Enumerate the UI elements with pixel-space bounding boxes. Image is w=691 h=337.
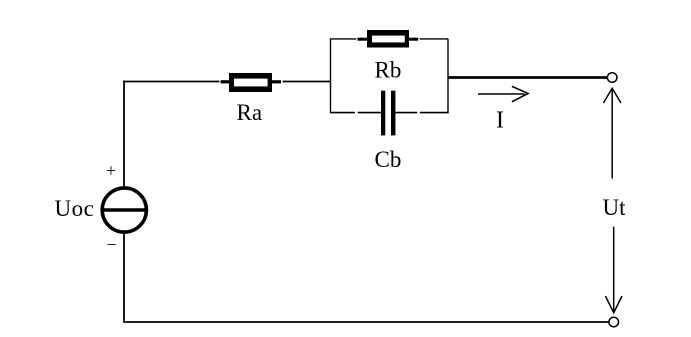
svg-text:I: I (496, 108, 504, 134)
svg-text:Uoc: Uoc (55, 196, 95, 221)
wire: parallel block bottom edge far-right segment (420, 112, 449, 114)
wire: left vertical (source bottom down to bottom wire) (123, 234, 125, 323)
resistor Ra (229, 73, 272, 92)
terminal: bottom output node (609, 317, 619, 327)
wire: Ra to parallel block (283, 81, 331, 83)
wire: thick lead stub left of Ra (221, 80, 229, 83)
terminal: top output node (607, 73, 617, 83)
wire: parallel block top edge right segment (420, 38, 448, 40)
label I (496, 108, 504, 134)
wire: Cb right lead (395, 112, 417, 114)
label Rb (375, 58, 402, 83)
voltage source U_oc (101, 188, 147, 232)
label Cb (375, 147, 402, 172)
wire: parallel block top edge left segment (330, 38, 356, 40)
svg-text:+: + (106, 161, 116, 181)
polarity plus sign (106, 161, 116, 181)
capacitor Cb (381, 91, 395, 136)
wire: thick lead stub left of Rb (358, 38, 368, 41)
label Ut (603, 195, 627, 220)
wire: parallel block left edge (330, 39, 332, 113)
wire: left vertical (top wire corner down to source top) (123, 81, 125, 187)
svg-text:Ra: Ra (237, 100, 263, 125)
label Uoc (55, 196, 95, 221)
resistor Rb (367, 30, 409, 48)
wire: thick lead stub right of Ra (272, 80, 282, 83)
wire: parallel block bottom edge far-left segment (330, 112, 355, 114)
Ut upper arrow (pointing up at top terminal) (603, 88, 621, 178)
svg-text:Rb: Rb (375, 58, 402, 83)
Ut lower arrow (pointing down at bottom terminal) (605, 227, 622, 313)
wire: bottom horizontal (123, 321, 609, 323)
svg-text:Cb: Cb (375, 147, 402, 172)
label Ra (237, 100, 263, 125)
wire: output thick wire to top terminal (448, 76, 607, 79)
wire: Cb left lead (358, 112, 381, 114)
polarity minus sign (106, 235, 116, 255)
svg-text:Ut: Ut (603, 195, 627, 220)
current arrow I (478, 86, 528, 101)
svg-text:−: − (106, 235, 116, 255)
wire: parallel block right edge (447, 39, 449, 113)
wire: top-left horizontal from source branch to Ra (123, 81, 219, 83)
wire: thick lead stub right of Rb (409, 38, 419, 41)
